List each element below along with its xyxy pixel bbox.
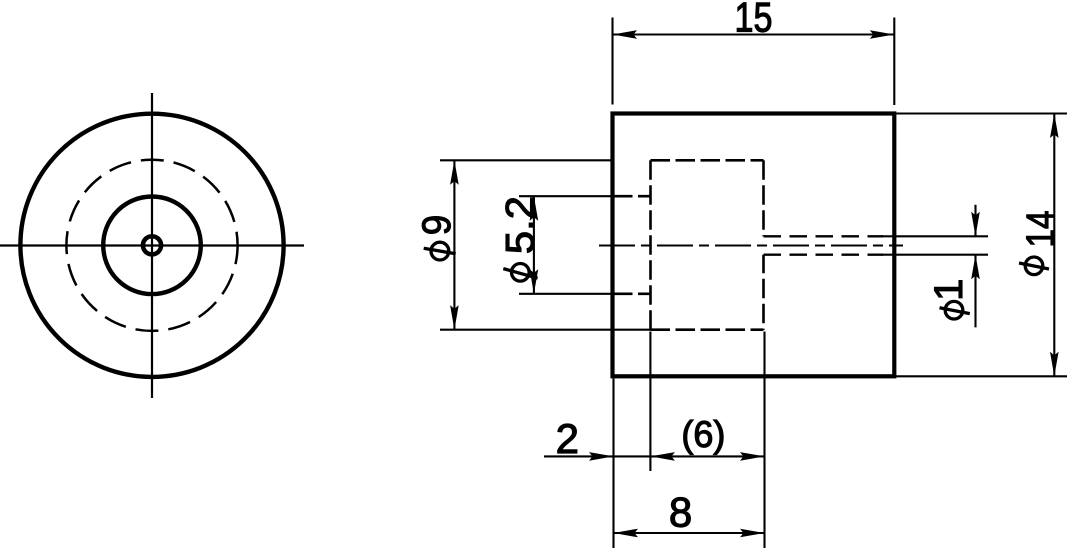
dimension phi9: diameter symbol slash xyxy=(424,248,456,254)
side view: body outline rectangle 15x14 xyxy=(613,114,895,377)
dimension phi5.2: top extension line xyxy=(519,195,614,197)
extension line at x=650.4 (depth 2, bottom dims) xyxy=(649,332,651,472)
dimension 8: dimension line xyxy=(614,532,765,534)
front view: hidden circle phi9 (dashed) xyxy=(66,160,237,331)
dimension 2: arrowhead pointing right xyxy=(589,452,614,461)
dimension phi14: diameter symbol circle xyxy=(1025,257,1043,275)
side view: centerline (chain) xyxy=(599,244,903,246)
dimension phi9: bottom arrowhead xyxy=(450,305,459,330)
dimension phi9: dimension line xyxy=(453,160,455,329)
svg-text:14: 14 xyxy=(1019,211,1063,248)
dimension phi1: lower arrow line xyxy=(974,255,976,328)
dimension phi5.2: top arrowhead xyxy=(530,196,539,221)
dimension phi14: top arrowhead xyxy=(1050,114,1059,139)
svg-text:1: 1 xyxy=(927,279,971,301)
side view: hidden line phi5.2 hole top xyxy=(613,195,651,198)
dimension phi14: dimension line xyxy=(1053,114,1055,377)
dimension phi9: top extension line xyxy=(440,159,614,161)
dimension phi5.2: bottom arrowhead xyxy=(530,269,539,294)
side view: hidden line phi5.2 hole bottom xyxy=(613,292,651,295)
dimension phi5.2: diameter symbol slash xyxy=(503,269,537,279)
svg-text:5.2: 5.2 xyxy=(498,196,542,254)
dimension 15: right extension line xyxy=(893,18,895,106)
side view: hidden line phi9 hole end face lower xyxy=(762,255,765,330)
svg-text:(6): (6) xyxy=(681,414,725,455)
dimension 8: right arrowhead xyxy=(740,529,765,538)
side view: hidden line phi9 hole end face upper xyxy=(762,160,765,236)
front view: circle phi1 xyxy=(143,236,161,254)
dimension phi5.2: dimension line xyxy=(533,196,535,294)
dimension 15: left extension line xyxy=(611,18,613,105)
svg-text:8: 8 xyxy=(669,489,692,536)
dimension phi5.2: digits 5.2 (rotated) xyxy=(498,196,542,254)
dimension phi5.2: diameter symbol circle xyxy=(512,264,530,282)
dimension phi1: diameter symbol circle xyxy=(945,301,963,319)
extension line at x=764.5 (depth 8, bottom dims) xyxy=(763,332,765,549)
dimension phi14: bottom extension line xyxy=(896,375,1067,377)
side view: hidden line phi9 hole bottom xyxy=(651,328,764,331)
svg-text:9: 9 xyxy=(415,215,459,236)
dimension phi9: diameter symbol circle xyxy=(431,242,449,260)
dimension (6): dimension line xyxy=(650,455,764,457)
front view: circle phi5.2 xyxy=(103,197,201,295)
dimension phi14: diameter symbol slash xyxy=(1019,263,1049,269)
dimension phi1: bottom extension line xyxy=(881,254,988,256)
dimension 15: left arrowhead xyxy=(613,30,638,39)
front view: outer circle phi14 xyxy=(20,114,283,377)
dimension phi9: digit 9 (rotated) xyxy=(415,215,459,236)
side view: hidden line phi9 hole top xyxy=(651,159,764,162)
dimension phi1: lower arrowhead pointing up xyxy=(971,255,980,280)
dimension phi5.2: bottom extension line xyxy=(519,293,614,295)
dimension phi1: digit 1 (rotated) xyxy=(927,279,971,301)
svg-text:15: 15 xyxy=(735,0,773,41)
dimension phi1: top extension line xyxy=(881,235,988,237)
dimension phi14: bottom arrowhead xyxy=(1050,352,1059,377)
svg-text:2: 2 xyxy=(556,415,579,462)
side view: hidden line phi1 hole bottom xyxy=(764,254,884,256)
side view: hidden line step face at depth 2 xyxy=(649,160,652,329)
dimension phi9: top arrowhead xyxy=(450,160,459,185)
dimension (6): left arrowhead xyxy=(650,452,675,461)
dimension phi14: top extension line xyxy=(896,112,1067,114)
dimension phi1: upper arrowhead pointing down xyxy=(971,212,980,237)
front view: vertical centerline xyxy=(151,93,153,398)
dimension 15: right arrowhead xyxy=(870,30,895,39)
dimension 15: dimension line xyxy=(613,33,895,35)
front view: horizontal centerline xyxy=(0,244,304,246)
dimension phi14: digits 14 (rotated) xyxy=(1019,211,1063,248)
extension line at x=613.5 (left face, bottom dims) xyxy=(612,379,614,549)
dimension (6): right arrowhead xyxy=(740,452,765,461)
dimension phi9: bottom extension line xyxy=(440,329,652,331)
side view: hidden line phi1 hole top xyxy=(764,235,884,237)
dimension 2: dimension line with arrow from left xyxy=(544,455,650,457)
dimension 8: left arrowhead xyxy=(614,529,639,538)
dimension phi1: upper arrow line xyxy=(974,205,976,237)
dimension phi1: diameter symbol slash xyxy=(940,308,970,314)
